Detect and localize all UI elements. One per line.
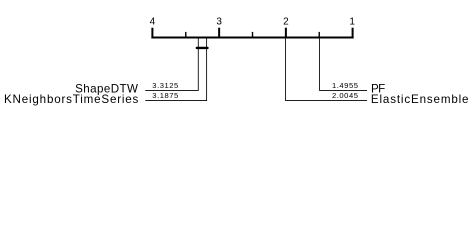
minor tick 3.5 — [185, 32, 187, 39]
axis line — [151, 37, 353, 39]
connector ElasticEnsemble — [286, 39, 368, 101]
svg-text:2.0045: 2.0045 — [332, 91, 359, 100]
svg-text:4: 4 — [150, 17, 156, 28]
svg-text:1.4955: 1.4955 — [332, 81, 359, 90]
connector ShapeDTW — [145, 39, 198, 91]
svg-text:KNeighborsTimeSeries: KNeighborsTimeSeries — [4, 93, 139, 106]
major tick 1 — [352, 28, 354, 39]
svg-text:3.1875: 3.1875 — [152, 91, 179, 100]
connector KNeighborsTimeSeries — [145, 39, 206, 101]
minor tick 2.5 — [252, 32, 254, 39]
connector PF — [320, 39, 368, 91]
major tick 3 — [218, 28, 220, 39]
svg-text:1: 1 — [349, 17, 355, 28]
svg-text:ElasticEnsemble: ElasticEnsemble — [371, 93, 469, 106]
major tick 2 — [285, 28, 287, 39]
svg-text:3.3125: 3.3125 — [152, 81, 179, 90]
major tick 4 — [151, 28, 153, 39]
svg-text:2: 2 — [283, 17, 289, 28]
clique bar ShapeDTW-KNeighborsTimeSeries — [197, 47, 208, 49]
svg-text:3: 3 — [216, 17, 222, 28]
minor tick 1.5 — [318, 32, 320, 39]
